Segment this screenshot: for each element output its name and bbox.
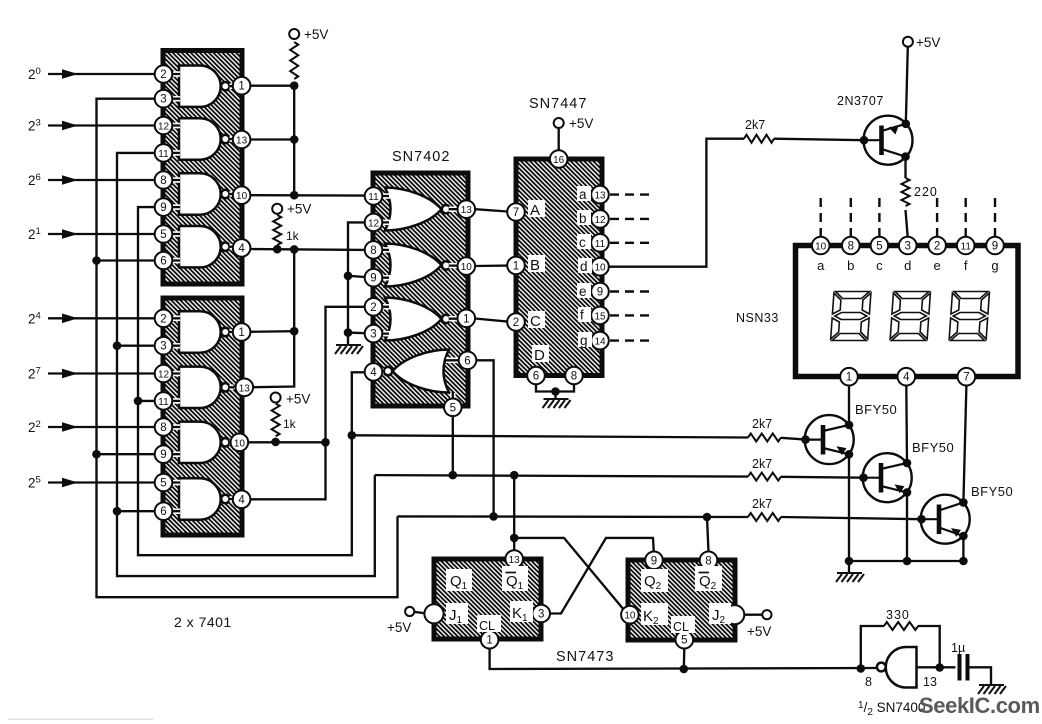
pin U4-7 [507, 203, 525, 221]
svg-text:a: a [817, 258, 825, 273]
svg-text:2: 2 [513, 317, 519, 329]
pin DISP-10 [812, 237, 830, 255]
svg-text:2: 2 [934, 241, 940, 253]
wire B1 pin1 output row [250, 85, 294, 87]
svg-text:d: d [580, 259, 588, 274]
wire dashes display b [850, 198, 852, 237]
node Q4 emitter [903, 488, 912, 497]
wire B1 pin10 output row to SN7402 pin11 [250, 194, 365, 197]
wire input 2^0 row [48, 73, 155, 75]
pin B1-9 [155, 198, 173, 216]
IC block 7401 #2 (quad NAND, bottom-left) [163, 298, 242, 535]
wire input 2^5 row [48, 481, 155, 483]
svg-text:2: 2 [370, 302, 376, 314]
wire dashes display c [878, 198, 880, 237]
svg-text:13: 13 [239, 383, 251, 394]
svg-text:1: 1 [238, 327, 244, 339]
svg-text:3: 3 [160, 94, 166, 106]
node Q4 collector [903, 459, 912, 468]
resistor R6 2k7 [748, 473, 781, 481]
pin FF2-10 [621, 606, 639, 624]
wire dashes display g [994, 198, 996, 237]
wire Q4 emitter to ground bus [906, 492, 908, 561]
wire B2 pin11 branch [138, 400, 155, 402]
pin B1-12 [155, 117, 173, 135]
svg-text:BFY50: BFY50 [912, 440, 954, 455]
svg-text:10: 10 [236, 191, 248, 202]
gate stubs SN7402 [381, 196, 459, 401]
svg-text:3: 3 [904, 241, 910, 253]
wire capacitor to ground [969, 667, 992, 684]
svg-text:3: 3 [160, 341, 166, 353]
pin DISP-5 [871, 237, 889, 255]
arrowhead input 2^7 [62, 369, 78, 379]
pin U3-9 [365, 269, 383, 287]
svg-text:10: 10 [815, 242, 827, 253]
pin B2-12 [155, 365, 173, 383]
arrowhead input 2^1 [62, 229, 78, 239]
svg-text:6: 6 [160, 506, 166, 518]
svg-text:1: 1 [513, 260, 519, 272]
node Q5 collector [959, 498, 968, 507]
svg-text:11: 11 [158, 397, 169, 408]
node Q5 base [917, 515, 926, 524]
svg-text:11: 11 [368, 192, 379, 203]
wire SN7402 pin5 down [452, 416, 454, 475]
wire 2k7 R5 to Q3 base [781, 438, 806, 440]
svg-text:+5V: +5V [569, 116, 593, 131]
wire 2k7 R6 to Q4 base [781, 476, 864, 479]
wire display pin7 to Q5 collector [963, 386, 966, 503]
pin U4-10 [591, 258, 609, 276]
wire node to FF1 pin13 [513, 475, 515, 551]
node pullup/pin13 [290, 135, 299, 144]
display NSN33 outline [796, 246, 1019, 377]
wire B2 pin6 branch [117, 510, 155, 512]
node 2N3707 collector [901, 152, 910, 161]
pin U4-9 [591, 283, 609, 301]
pin B1-2 [155, 65, 173, 83]
svg-text:2k7: 2k7 [752, 417, 772, 431]
svg-text:B: B [530, 257, 540, 274]
svg-text:2N3707: 2N3707 [837, 94, 884, 108]
svg-text:12: 12 [158, 370, 170, 381]
svg-text:4: 4 [238, 243, 245, 255]
node pin4 branch [290, 245, 299, 254]
svg-text:2: 2 [160, 69, 166, 81]
pin U3-2 [365, 298, 383, 316]
svg-text:5: 5 [160, 478, 166, 490]
svg-text:9: 9 [160, 449, 166, 461]
flip-flop FF2 (1/2 SN7473) [628, 560, 735, 640]
svg-text:SN7447: SN7447 [529, 96, 587, 112]
pin U3-3 [365, 325, 383, 343]
wire B1 pin4 net down to B2 pin1/pin13 [253, 249, 294, 387]
pin B1-6 [155, 252, 173, 270]
pin DISP-11 [957, 237, 975, 255]
pin U4-13 [591, 186, 609, 204]
display digit 3 [949, 292, 989, 341]
node 2N3707 base [860, 136, 869, 145]
wire Q5 emitter to ground bus [962, 536, 964, 561]
node B1 pin3/pin6 [92, 256, 101, 265]
svg-text:12: 12 [158, 122, 170, 133]
svg-text:a: a [579, 187, 587, 202]
pin B2-3 [155, 337, 173, 355]
NAND gate G7 (pins 8,9 -> 10) [179, 422, 221, 463]
svg-text:2 x 7401: 2 x 7401 [174, 614, 232, 630]
svg-text:CL: CL [479, 619, 495, 633]
wire SN7402 pin9 stub [348, 276, 365, 277]
pin FF2-9 [645, 552, 663, 570]
pin B1-13 [233, 131, 251, 149]
terminal +5V top pull-up [289, 29, 299, 39]
NAND gate G4 (pins 5,6 -> 4) [179, 226, 221, 267]
pin DISP-1 [840, 368, 858, 386]
transistor Q1 2N3707 (PNP) [864, 116, 913, 165]
wire cross X: K1 to Q2 pin9 [550, 538, 654, 614]
resistor R5 2k7 [748, 434, 781, 442]
wire pull-up vertical +5V (top) [293, 84, 295, 195]
wire dashes SN7447 g [610, 339, 653, 341]
svg-text:9: 9 [160, 202, 166, 214]
flip-flop FF1 (1/2 SN7473) [434, 559, 541, 639]
svg-text:15: 15 [594, 311, 606, 322]
svg-text:11: 11 [961, 242, 972, 253]
node Q4 base [859, 473, 868, 482]
wire input 2^2 row [48, 426, 155, 428]
svg-text:11: 11 [158, 149, 169, 160]
node SN7447 gnd [551, 387, 560, 396]
svg-text:8: 8 [160, 175, 166, 187]
resistor R2 1k [273, 215, 281, 245]
pin U3-1 [458, 310, 476, 328]
wire SN7447 d output to 2k7 R4 [608, 139, 744, 267]
pin U4-2 [507, 313, 525, 331]
terminal +5V 2N3707 [903, 37, 913, 47]
node B2 pin10/pin4 [321, 438, 330, 447]
pin U4-15 [591, 307, 609, 325]
node FF1 pin13 tap [510, 471, 519, 480]
node CL line FF2 [680, 665, 689, 674]
node 1k/B2 pin10 [271, 438, 280, 447]
wire dashes SN7447 b [610, 218, 653, 220]
gate input/output stubs 7401 #2 [171, 318, 234, 511]
svg-text:9: 9 [597, 287, 603, 299]
node Q1bar cross [510, 534, 519, 543]
svg-text:+5V: +5V [304, 27, 328, 42]
svg-text:c: c [876, 258, 883, 273]
NAND gate G1 (pins 2,3 -> 1) [179, 66, 221, 107]
wire dashes display f [965, 198, 967, 237]
NAND gate G5 (pins 2,3 -> 1) [179, 311, 221, 352]
svg-text:6: 6 [160, 256, 166, 268]
ground (SN7447 pins 6,8) [543, 399, 571, 408]
pin DISP-4 [898, 368, 916, 386]
svg-text:13: 13 [923, 675, 937, 689]
pin B2-13 [236, 379, 254, 397]
pin U3-8 [365, 241, 383, 259]
svg-text:1µ: 1µ [951, 641, 965, 655]
svg-text:+5V: +5V [916, 35, 940, 50]
svg-text:e: e [579, 284, 587, 299]
wire base line BFY50 Q3 (y 437) [352, 435, 748, 437]
svg-text:5: 5 [876, 241, 882, 253]
wire SN7402 pin3 stub [348, 331, 365, 334]
pin U4-1 [507, 257, 525, 275]
pin B1-10 [233, 186, 251, 204]
wire gate output to capacitor [917, 666, 956, 668]
wire base line BFY50 Q4 (y 475) [375, 475, 748, 477]
wire FF2 pin5 stub [683, 648, 686, 669]
wire bus B: B1 pin11, B2 pin3 + pin6, loop to Q1-bar net [117, 153, 375, 576]
svg-text:9: 9 [370, 273, 376, 285]
svg-text:1k: 1k [286, 229, 300, 243]
terminal +5V 1k R2 [272, 204, 282, 214]
wire 2k7 R4 to 2N3707 base [774, 139, 864, 141]
node osc output [935, 663, 944, 672]
transistor Q3 BFY50 (NPN) [805, 415, 854, 464]
pin B1-4 [233, 239, 251, 257]
svg-text:2k7: 2k7 [745, 118, 765, 132]
pin U3-11 [365, 187, 383, 205]
svg-text:d: d [904, 258, 911, 273]
svg-text:1: 1 [846, 372, 852, 384]
svg-text:2: 2 [160, 313, 166, 325]
wire B2 pin10+pin4 net up to SN7402 pin2 [250, 307, 365, 500]
svg-text:C: C [530, 313, 541, 330]
svg-text:8: 8 [571, 371, 577, 383]
wire display pin4 to Q4 collector [905, 386, 908, 464]
svg-text:7: 7 [963, 372, 969, 384]
svg-text:1: 1 [486, 635, 492, 647]
svg-text:8: 8 [370, 245, 376, 257]
pin B2-1 [233, 323, 251, 341]
svg-text:8: 8 [865, 675, 872, 689]
pin FF1-J1 [424, 604, 443, 623]
transistor Q4 BFY50 (NPN) [863, 453, 912, 502]
node B2 pin9 [92, 450, 101, 459]
wire SN7402 pin10 out to SN7447 pin1 [475, 264, 508, 267]
pin FF2-8 [700, 552, 718, 570]
pin DISP-3 [899, 237, 917, 255]
pin FF1-1 [481, 631, 499, 649]
pin B2-9 [155, 445, 173, 463]
scan artifact bottom left [8, 719, 153, 721]
svg-text:220: 220 [914, 185, 938, 199]
node osc input [857, 664, 866, 673]
pin DISP-8 [842, 237, 860, 255]
svg-text:SN7402: SN7402 [392, 149, 450, 165]
wire B2 pin1 output row [250, 330, 294, 333]
wire dashes SN7447 a [610, 193, 653, 195]
node pin6/Q5 line [489, 512, 498, 521]
pin B1-1 [233, 77, 251, 95]
svg-text:+5V: +5V [286, 392, 310, 407]
svg-text:3: 3 [538, 609, 544, 621]
node gnd bus Q3 [845, 557, 854, 566]
svg-text:f: f [964, 258, 968, 273]
node pullup/pin1 [290, 81, 299, 90]
wire 330 feedback loop [861, 626, 940, 669]
pin U3-10 [458, 257, 476, 275]
wire input 2^1 row [48, 233, 155, 235]
svg-text:SeekIC.com: SeekIC.com [919, 693, 1040, 718]
svg-text:9: 9 [651, 555, 657, 567]
svg-text:A: A [530, 202, 540, 219]
svg-text:13: 13 [509, 555, 521, 566]
NAND gate G3 (pins 8,9 -> 10) [179, 173, 221, 214]
resistor R7 2k7 [748, 513, 781, 521]
svg-text:5: 5 [681, 635, 687, 647]
svg-text:16: 16 [553, 155, 565, 166]
svg-text:g: g [580, 333, 588, 348]
node Q3 collector [845, 421, 854, 430]
svg-text:SN7473: SN7473 [556, 649, 614, 665]
pin FF1-13 [505, 550, 523, 568]
svg-text:BFY50: BFY50 [855, 402, 897, 417]
NOR gate G11 (pins 2,3 -> 1) [385, 298, 442, 341]
resistor R4 2k7 (to 2N3707) [744, 135, 774, 143]
wire B2 pin9 branch [97, 453, 156, 455]
svg-text:11: 11 [595, 239, 606, 250]
wire B1 pin13 output row [250, 138, 294, 140]
svg-text:5: 5 [450, 402, 456, 414]
pin DISP-2 [928, 237, 946, 255]
svg-text:4: 4 [238, 494, 245, 506]
terminal +5V J1 [405, 607, 414, 616]
wire J2 +5V [744, 614, 762, 616]
NOR gate G9 (pins 11,12 -> 13) [385, 188, 442, 231]
pin U4-6 [527, 367, 545, 385]
gate G13 mirrored NAND [877, 647, 917, 688]
resistor R8 220 [902, 178, 910, 206]
wire input 2^4 row [48, 317, 155, 319]
IC block 7401 #1 (quad NAND, top-left) [163, 51, 242, 285]
wire base line BFY50 Q5 (y 516) [398, 515, 749, 518]
pin U4-12 [591, 210, 609, 228]
wire 220 to display pin d [906, 210, 908, 237]
svg-text:2k7: 2k7 [752, 497, 772, 511]
wire SN7402 pin13 out to SN7447 pin7 [475, 209, 508, 211]
node SN7402 pin9 gnd [344, 272, 353, 281]
NOR gate G10 (pins 8,9 -> 10) [385, 244, 442, 287]
pin U4-16 [550, 150, 568, 168]
svg-text:10: 10 [594, 263, 606, 274]
wire +5V to 2N3707 emitter [906, 47, 908, 124]
node FF2 pin8 tap [703, 513, 712, 522]
wire emitter ground bus [849, 561, 963, 572]
display digit 1 [831, 292, 871, 341]
pin U3-6 [459, 352, 477, 370]
node Q3 emitter [845, 450, 854, 459]
svg-text:14: 14 [594, 337, 606, 348]
arrowhead input 2^0 [62, 69, 78, 79]
display digit 2 [890, 292, 930, 341]
node gnd bus Q4 [903, 557, 912, 566]
resistor R1 pull-up (+5V, top) [290, 42, 298, 79]
wire input 2^3 row [48, 124, 155, 126]
svg-text:7: 7 [513, 207, 519, 219]
svg-text:4: 4 [370, 367, 377, 379]
label FF1 Q1bar overline [506, 572, 517, 574]
pin B1-3 [155, 90, 173, 108]
svg-text:c: c [579, 235, 586, 250]
wire SN7447 pins 6,8 to ground [536, 384, 574, 398]
svg-text:330: 330 [886, 608, 910, 622]
node B2 pin11 [134, 397, 143, 406]
pin DISP-7 [958, 368, 976, 386]
transistor Q5 BFY50 (NPN) [921, 495, 970, 544]
pin B2-5 [155, 474, 173, 492]
wire FF clock line CL1/CL2 to gate input [490, 648, 877, 669]
svg-text:+5V: +5V [287, 202, 311, 217]
svg-text:12: 12 [594, 215, 606, 226]
svg-text:12: 12 [368, 218, 380, 229]
wire FF2 pin8 up to Q5 base line [707, 517, 709, 552]
NAND gate G6 (pins 12,11 -> 13) [179, 367, 221, 408]
svg-text:+5V: +5V [747, 624, 771, 639]
svg-text:6: 6 [464, 355, 470, 367]
node 1k/pin4 [273, 245, 282, 254]
resistor R9 330 [884, 622, 918, 630]
svg-text:D: D [534, 347, 545, 364]
pin B1-11 [155, 144, 173, 162]
wire cross X: Q1-bar to K2 [514, 538, 623, 609]
node SN7402 pin3 gnd [344, 328, 353, 337]
terminal +5V J2 [762, 610, 771, 619]
wire bus C: B1 pin9, B2 pin11, loop to SN7402 pin4 net [138, 207, 365, 555]
svg-text:f: f [580, 308, 584, 323]
svg-text:10: 10 [234, 438, 246, 449]
pin DISP-9 [986, 237, 1004, 255]
pin B1-5 [155, 225, 173, 243]
pin U4-11 [591, 234, 609, 252]
svg-text:10: 10 [461, 262, 473, 273]
wire bus A: B1 pin3 + pin6, B2 pin9, loop to BFY50 Q4 net [97, 99, 398, 598]
wire input 2^6 row [48, 179, 155, 181]
wire SN7402 pin1 out to SN7447 pin2 [475, 319, 508, 322]
resistor R3 1k [272, 404, 280, 437]
terminal +5V 1k R3 [271, 393, 281, 403]
svg-text:g: g [991, 258, 998, 273]
IC U4 SN7447 (BCD to 7-seg decoder) [516, 159, 602, 376]
svg-text:+5V: +5V [387, 620, 411, 635]
IC U3 SN7402 (quad NOR) [373, 173, 468, 406]
wire dashes display a [820, 198, 822, 237]
node pin5/Q4 line [449, 471, 458, 480]
svg-text:b: b [847, 258, 854, 273]
svg-text:8: 8 [705, 555, 711, 567]
pin B2-4 [233, 491, 251, 509]
node 2N3707 emitter [902, 120, 911, 129]
svg-text:2k7: 2k7 [752, 457, 772, 471]
pin U4-8 [565, 367, 583, 385]
wire dashes SN7447 c [610, 242, 653, 244]
svg-text:9: 9 [992, 241, 998, 253]
node Q3 base [801, 435, 810, 444]
svg-text:13: 13 [236, 136, 248, 147]
svg-text:b: b [579, 211, 587, 226]
wire Q3 emitter to ground bus [848, 454, 850, 561]
arrowhead input 2^3 [62, 121, 78, 131]
wire 2N3707 collector to 220 [904, 157, 906, 178]
pin B2-8 [155, 418, 173, 436]
wire B1 pin6 branch [97, 259, 156, 261]
pin U3-13 [458, 200, 476, 218]
wire B2 pin3 branch [117, 345, 155, 347]
pin FF2-J2 [725, 605, 744, 624]
